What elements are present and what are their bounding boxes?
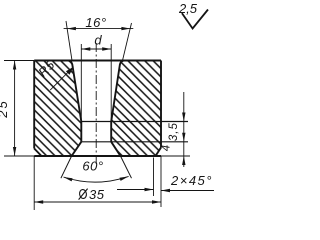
60 deg dimension arc (64, 176, 129, 182)
60 deg arc arrowhead left (64, 177, 73, 181)
2x45 dimension line right segment (161, 190, 214, 192)
phi35 dimension line (34, 201, 161, 203)
left edge of block (33, 61, 35, 149)
exit cone wall right (60 deg) (111, 142, 120, 156)
16 deg extension line right (123, 23, 132, 61)
d dimension line (81, 48, 111, 50)
hatching right section (111, 61, 161, 157)
exit cone wall left (60 deg) (72, 142, 82, 156)
phi35 arrowheads (34, 200, 161, 203)
2x45 chamfer extension line (153, 158, 155, 197)
bottom-right chamfer 2x45 (156, 148, 162, 157)
taper wall left (16 deg entry cone, R5 fillet at top) (69, 61, 82, 122)
arrowhead down at bore top line (182, 113, 185, 122)
25 arrowheads (13, 61, 16, 157)
svg-text:60°: 60° (82, 159, 103, 174)
centerline (dash-dot) (95, 43, 97, 164)
hatching left section (34, 61, 81, 157)
svg-text:3,5: 3,5 (168, 122, 180, 141)
bottom-left chamfer 2x45 (34, 149, 41, 157)
top face edge (34, 60, 161, 62)
roughness mark 2,5 (top right) (182, 10, 208, 29)
2x45 right arrowhead pointing left (161, 189, 170, 192)
2x45 dimension line left segment (117, 189, 154, 191)
16 deg dimension line (64, 28, 134, 30)
top face extension line (left, for 25 dim) (4, 60, 34, 62)
d extension lines (81, 44, 111, 122)
svg-text:25: 25 (0, 99, 10, 118)
svg-text:35: 35 (89, 187, 105, 202)
exit cone extension right (for 60 deg dim) (121, 156, 132, 178)
16 deg extension line left (66, 21, 72, 61)
taper wall right (16 deg entry cone) (111, 61, 123, 122)
bore top edge line (extends right as extension for 3,5 dim) (81, 121, 188, 123)
60 deg arc arrowhead right (120, 176, 129, 181)
bottom face edge (34, 155, 161, 157)
svg-text:4: 4 (161, 145, 173, 151)
right vertical dimension line (3,5 and 4) (183, 92, 185, 167)
arrowhead up at bottom face line (182, 156, 185, 165)
d arrowheads (81, 47, 111, 50)
arrowhead down at bore bottom line (182, 133, 185, 142)
R5 leader arrowhead (66, 67, 74, 75)
svg-text:d: d (94, 33, 102, 48)
R5 leader (50, 68, 72, 90)
right edge of block (160, 61, 162, 148)
svg-text:2,5: 2,5 (178, 1, 198, 16)
2x45 left arrowhead pointing right (145, 188, 154, 191)
phi symbol (79, 189, 87, 199)
bore wall right (diameter d) (110, 122, 112, 142)
16 deg arrowheads (67, 27, 130, 30)
25 dimension line (14, 61, 16, 157)
svg-text:16°: 16° (85, 15, 106, 30)
bore wall left (diameter d) (80, 122, 82, 142)
svg-text:2×45°: 2×45° (170, 173, 213, 188)
exit cone extension left (for 60 deg dim) (61, 156, 72, 178)
phi35 extension lines (34, 156, 161, 210)
bore bottom edge line (extends right as extension for 4 dim) (81, 141, 188, 143)
bottom face extension lines (4, 155, 190, 157)
